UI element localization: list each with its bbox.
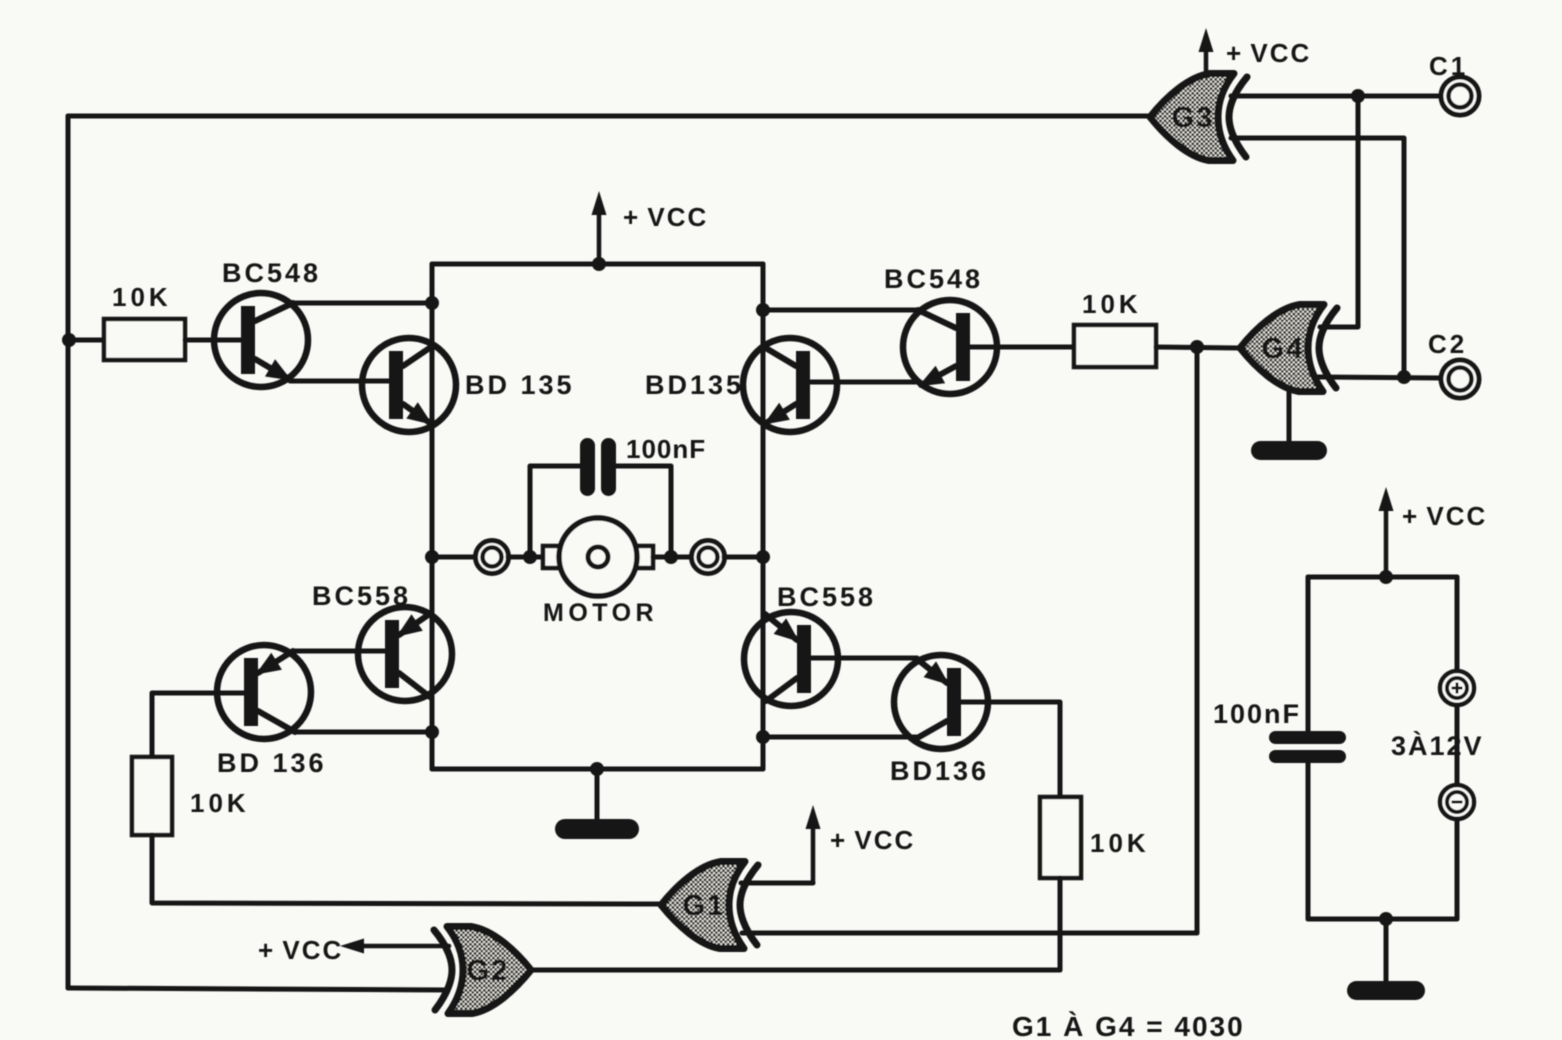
wire: Q6 emitter to Q5 base — [294, 649, 387, 654]
wire: R3 bottom to G1 output — [152, 835, 661, 904]
wire: motor to right junction — [653, 555, 691, 560]
svg-text:G4: G4 — [1262, 333, 1305, 365]
wire: battery mid branch — [1455, 705, 1460, 785]
node: junction snubber left / motor lead — [523, 550, 537, 564]
node: junction Q6 collector / left rail — [425, 725, 439, 739]
svg-text:BC558: BC558 — [777, 582, 876, 612]
battery negative terminal — [1440, 785, 1474, 819]
node: junction Q3/Q4 collectors on right rail — [756, 303, 770, 317]
wire: R1 to Q1 base — [185, 338, 243, 343]
svg-text:G2: G2 — [467, 955, 510, 987]
svg-text:BD 136: BD 136 — [217, 748, 327, 778]
transistor Q3 BD135 (NPN, mirrored) — [743, 338, 837, 432]
wire: snubber left branch — [530, 466, 580, 557]
resistor R1 10K — [104, 319, 185, 360]
svg-text:BC558: BC558 — [312, 581, 411, 611]
power +VCC arrow (G3) — [1204, 42, 1209, 76]
svg-text:+ VCC: + VCC — [258, 935, 343, 965]
wire: feedback vertical from G4 output node — [1195, 347, 1200, 933]
node: junction right rail / motor row — [756, 550, 770, 564]
wire: bottom run to G2 lower input — [68, 988, 448, 990]
svg-text:G1: G1 — [683, 890, 726, 922]
power +VCC arrow (supply) — [1384, 501, 1389, 578]
XOR gate G4 — [1240, 305, 1337, 392]
wire: Q1 collector to left bridge rail — [293, 301, 432, 306]
power +VCC arrow (G1) — [811, 819, 816, 883]
wire: Q8 base to R4 — [961, 702, 1060, 797]
wire: R4 bottom to G2 output — [1058, 878, 1063, 970]
XOR gate G1 — [661, 862, 758, 949]
wire: battery negative branch — [1455, 819, 1460, 919]
wire: right connector to right rail — [724, 555, 763, 560]
node: junction supply top rail — [1379, 570, 1393, 584]
wire: left rail to left connector — [432, 555, 477, 560]
wire: G3 output run to top-left — [68, 114, 1150, 119]
svg-text:+ VCC: + VCC — [1226, 38, 1311, 68]
node: junction bottom rail / ground — [590, 762, 604, 776]
node: junction R2 / G4 / feedback — [1190, 340, 1204, 354]
wire: left connector to motor — [508, 555, 544, 560]
connector C2 — [1441, 360, 1479, 398]
wire: supply bottom rail — [1308, 917, 1457, 922]
capacitor C3 100nF (motor snubber) — [580, 438, 616, 496]
node: junction Q8 collector / right rail — [756, 730, 770, 744]
battery positive terminal — [1440, 671, 1474, 705]
svg-text:100nF: 100nF — [626, 434, 706, 464]
svg-text:C2: C2 — [1428, 329, 1467, 359]
wire: Q8 collector to right rail — [765, 735, 918, 740]
wire: G2 output to R4 bottom — [531, 968, 1060, 973]
wire: battery positive branch — [1455, 577, 1460, 671]
resistor R2 10K — [1074, 325, 1156, 367]
capacitor C4 100nF (supply decoupling) — [1269, 731, 1346, 763]
connector: motor right terminal — [692, 541, 725, 574]
svg-text:+ VCC: + VCC — [830, 825, 915, 855]
svg-text:BC548: BC548 — [884, 264, 983, 294]
svg-text:100nF: 100nF — [1213, 699, 1301, 729]
svg-text:BD136: BD136 — [890, 756, 989, 786]
wire: R2 to G4 output — [1156, 347, 1240, 348]
transistor Q4 BC548 (NPN, mirrored) — [903, 300, 997, 394]
svg-text:+ VCC: + VCC — [623, 202, 708, 232]
wire: Q4 base to R2 — [970, 345, 1074, 350]
svg-text:C1: C1 — [1429, 51, 1468, 81]
wire: top +VCC rail of bridge — [432, 262, 763, 267]
transistor Q8 BD136 (PNP, mirrored) — [894, 655, 988, 749]
svg-text:+ VCC: + VCC — [1402, 501, 1487, 531]
wire: supply top rail — [1308, 575, 1457, 580]
wire: Q6 collector to left rail — [294, 730, 432, 735]
wire: right bridge vertical — [761, 264, 766, 769]
connector C1 — [1441, 77, 1479, 115]
node: junction Q1 collector / bridge rail — [425, 296, 439, 310]
wire: Q7 base to Q8 emitter — [811, 656, 917, 661]
motor M1 — [543, 518, 653, 596]
svg-text:G1 À G4 = 4030: G1 À G4 = 4030 — [1012, 1011, 1245, 1040]
node: +VCC junction on top rail — [592, 257, 606, 271]
node: junction left rail / motor row — [425, 550, 439, 564]
svg-text:10K: 10K — [190, 788, 250, 818]
power +VCC arrow (top center) — [597, 205, 602, 264]
transistor Q1 BC548 (NPN) — [214, 293, 308, 387]
XOR gate G3 — [1150, 74, 1247, 161]
wire: snubber right branch — [616, 466, 671, 557]
wire: Q3 base to Q4 emitter — [809, 380, 920, 385]
svg-text:10K: 10K — [1082, 289, 1142, 319]
connector: motor left terminal — [476, 541, 509, 574]
wire: G3 lower input to C2 node — [1231, 138, 1404, 377]
svg-text:BD 135: BD 135 — [465, 370, 575, 400]
wire: left rail to R1 — [68, 338, 104, 343]
transistor Q6 BD136 (PNP) — [217, 645, 311, 739]
resistor R3 10K — [132, 757, 172, 835]
wire: left vertical rail — [66, 116, 71, 988]
transistor Q2 BD135 (NPN) — [362, 338, 456, 432]
node: junction supply bottom rail / ground — [1379, 912, 1393, 926]
wire: Q6 base from R3 — [152, 693, 245, 757]
svg-text:3À12V: 3À12V — [1391, 730, 1484, 761]
wire: C4 to supply bottom rail — [1306, 762, 1311, 919]
wire: Q4 collector to right bridge rail — [763, 308, 917, 313]
node: junction left rail / R1 — [62, 333, 76, 347]
wire: left bridge vertical — [430, 264, 435, 769]
svg-text:G3: G3 — [1172, 102, 1215, 134]
node: junction C1 / G4 upper input feed — [1351, 89, 1365, 103]
wire: G4 lower input to C2 — [1318, 377, 1441, 378]
wire: Q1 emitter to Q2 base — [290, 379, 389, 384]
ground (G4) — [1287, 392, 1292, 445]
wire: G1 lower input from G4 feedback — [742, 931, 1197, 936]
svg-text:BD135: BD135 — [645, 370, 744, 400]
svg-text:10K: 10K — [112, 282, 172, 312]
transistor Q7 BC558 (PNP, mirrored) — [744, 612, 838, 706]
wire: bottom rail of bridge — [432, 767, 763, 772]
power +VCC arrow (G2, pointing left) — [354, 944, 449, 949]
transistor Q5 BC558 (PNP) — [358, 607, 452, 701]
wire: G3 upper input to C1 — [1231, 94, 1441, 99]
ground (bridge bottom rail) — [595, 769, 600, 823]
wire: G4 upper input from C1 node — [1320, 96, 1358, 327]
XOR gate G2 — [434, 927, 531, 1014]
ground (supply) — [1384, 919, 1389, 985]
wire: supply left branch to C4 — [1306, 577, 1311, 731]
svg-text:10K: 10K — [1090, 828, 1150, 858]
resistor R4 10K — [1040, 797, 1081, 878]
node: junction C2 / G3 lower input feed — [1397, 370, 1411, 384]
wire: G1 upper input to +VCC — [741, 881, 813, 886]
node: junction snubber right / motor lead — [664, 550, 678, 564]
svg-text:BC548: BC548 — [222, 258, 321, 288]
svg-text:MOTOR: MOTOR — [543, 599, 658, 627]
